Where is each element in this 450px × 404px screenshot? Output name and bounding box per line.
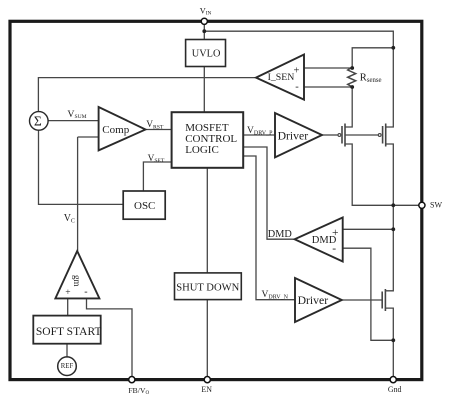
svg-text:Driver: Driver — [298, 294, 329, 307]
svg-text:LOGIC: LOGIC — [185, 144, 219, 156]
svg-text:gm: gm — [72, 275, 82, 287]
svg-text:I_SEN: I_SEN — [268, 72, 295, 83]
svg-text:Gnd: Gnd — [388, 385, 402, 394]
svg-text:SW: SW — [430, 201, 442, 210]
svg-text:OSC: OSC — [134, 200, 155, 212]
svg-text:UVLO: UVLO — [192, 48, 221, 59]
svg-text:REF: REF — [61, 363, 74, 370]
svg-text:+: + — [332, 227, 339, 239]
svg-text:Σ: Σ — [34, 114, 42, 129]
svg-text:-: - — [332, 243, 336, 255]
svg-text:DMD: DMD — [268, 229, 293, 240]
svg-text:Comp: Comp — [102, 124, 129, 136]
svg-text:-: - — [84, 287, 87, 298]
svg-text:SHUT DOWN: SHUT DOWN — [176, 283, 239, 294]
svg-text:-: - — [295, 81, 299, 92]
svg-text:+: + — [65, 288, 70, 298]
svg-text:SOFT START: SOFT START — [36, 326, 102, 338]
svg-text:EN: EN — [201, 385, 212, 394]
svg-text:+: + — [294, 65, 300, 76]
svg-text:Driver: Driver — [278, 129, 309, 142]
